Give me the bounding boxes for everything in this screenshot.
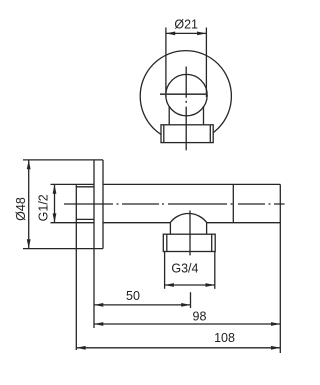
side view: G1/2 up arrowhead — [53, 184, 57, 193]
side view: outlet nut chamfer line left — [166, 234, 168, 251]
svg-text:108: 108 — [214, 331, 235, 345]
side view: G1/2 dimension line — [54, 184, 56, 222]
side view: G3/4 extension line right — [214, 252, 216, 289]
side view: Ø48 dimension line — [28, 160, 30, 249]
front view: Ø21 right arrowhead — [197, 32, 206, 36]
front view: neck line right — [203, 106, 205, 125]
front view: slot line through ball — [160, 93, 208, 95]
side view: outlet vertical centerline — [189, 211, 191, 256]
bottom dims: 108 left arrowhead — [76, 346, 85, 350]
front view: neck line left — [168, 106, 170, 125]
side view: Ø48 down arrowhead — [27, 239, 31, 248]
side view: Ø48 bottom extension line and flange bottom edge — [23, 248, 103, 250]
side view: arm tip vertical + extension line down — [279, 184, 281, 353]
side view: wall flange left edge / wall plane — [93, 160, 95, 328]
front view: Ø21 extension line left — [165, 28, 167, 98]
bottom dims: 50 right arrowhead — [181, 303, 190, 307]
side view: Ø48 top extension line and flange top edge — [23, 159, 103, 161]
svg-text:50: 50 — [126, 289, 140, 303]
bottom dims: 98 dimension line — [94, 323, 280, 325]
front view: vertical centerline — [185, 67, 187, 151]
side view: G1/2 thread inner line top — [76, 186, 94, 188]
bottom dims: 108 dimension line — [76, 347, 280, 349]
side view: G3/4 left arrowhead — [165, 283, 174, 287]
front view: outlet nut body — [161, 125, 213, 143]
bottom dims: 98 right arrowhead — [271, 322, 280, 326]
front view: flange outer circle — [140, 51, 231, 142]
bottom dims: 98 left arrowhead — [94, 322, 103, 326]
bottom dims: 50 dimension line — [94, 304, 191, 306]
front view: nut chamfer line left — [163, 125, 165, 143]
side view: outlet nut body — [163, 234, 215, 251]
svg-text:G3/4: G3/4 — [171, 261, 198, 275]
side view: pipe/arm top outline — [51, 183, 281, 185]
front view: Ø21 left arrowhead — [166, 32, 175, 36]
front view: Ø21 dimension line — [166, 32, 207, 34]
front view: Ø21 extension line right — [205, 28, 207, 98]
side view: pipe/arm bottom outline (interrupted by dome) — [51, 222, 281, 224]
side view: Ø48 up arrowhead — [27, 160, 31, 169]
side view: wall flange right edge — [102, 160, 104, 249]
front view: ball Ø21 circle — [166, 74, 207, 115]
side view: G3/4 dimension line — [165, 284, 215, 286]
svg-text:98: 98 — [193, 309, 207, 323]
svg-text:Ø21: Ø21 — [174, 18, 198, 32]
side view: outlet nut chamfer line right — [211, 234, 213, 251]
side view: G1/2 thread inner line bottom — [76, 218, 94, 220]
side view: G1/2 down arrowhead — [53, 213, 57, 222]
front view: nut chamfer line right — [209, 125, 211, 143]
side view: outlet dome — [170, 214, 206, 235]
bottom dims: outlet centerline extension tick — [190, 292, 192, 308]
svg-text:Ø48: Ø48 — [14, 197, 28, 221]
bottom dims: 108 right arrowhead — [271, 346, 280, 350]
side view: G3/4 extension line left — [164, 252, 166, 289]
bottom dims: 50 left arrowhead — [94, 303, 103, 307]
side view: arm joint line — [232, 184, 234, 222]
side view: G3/4 right arrowhead — [206, 283, 215, 287]
side view: horizontal centerline of arm — [64, 203, 285, 205]
svg-text:G1/2: G1/2 — [37, 194, 51, 221]
side view: G1/2 pipe end vertical + extension line down — [75, 184, 77, 350]
